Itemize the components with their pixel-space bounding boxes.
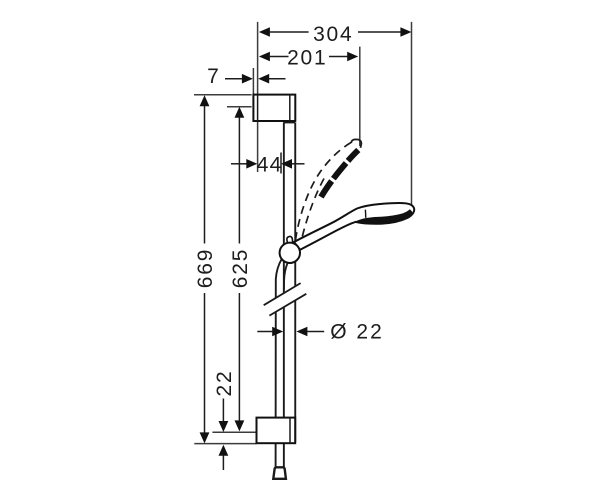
dimension 44 arrows — [246, 159, 292, 169]
dimension 22 arrows — [219, 421, 229, 456]
dimension 201 arrows — [259, 52, 358, 62]
dimension 44 line — [231, 153, 305, 174]
shower hose left edge — [276, 259, 282, 468]
extension line bracket centre bottom — [212, 431, 256, 433]
break line lower — [269, 294, 306, 316]
dimension 7 line — [225, 78, 286, 80]
dimension 304 line — [270, 31, 401, 33]
phantom hand shower head cap dashed — [351, 139, 361, 147]
shower hose right edge — [284, 263, 288, 290]
wall bar left edge — [283, 123, 285, 442]
hand shower body — [294, 203, 414, 250]
dimension 669 line — [204, 106, 206, 433]
wall bracket top — [253, 95, 295, 121]
dimension 304 arrows — [259, 27, 412, 37]
wall bracket top inner left line — [257, 95, 259, 121]
wall bar right edge — [294, 123, 296, 442]
hand shower spray face dark band — [356, 210, 412, 224]
svg-text:Ø 22: Ø 22 — [330, 321, 384, 344]
svg-text:201: 201 — [287, 46, 327, 69]
extension line right of 304 — [411, 22, 413, 207]
extension line bracket left face — [252, 68, 254, 95]
extension line top for 669 — [194, 94, 252, 96]
slider body circle — [280, 243, 300, 263]
dimension 201 line — [270, 56, 348, 58]
extension line wall reference — [257, 22, 259, 172]
dimension 669 arrows — [200, 95, 210, 443]
svg-text:669: 669 — [194, 248, 217, 288]
dimension 625 line — [238, 118, 240, 421]
dimension diameter 22 line — [257, 331, 324, 333]
slider release knob — [286, 236, 293, 245]
wall bracket top inner right line — [289, 95, 291, 121]
extension line bar end bottom — [194, 443, 256, 445]
dimension diameter 22 arrows — [272, 327, 307, 337]
svg-text:44: 44 — [257, 154, 283, 177]
break gap mask — [262, 283, 308, 318]
phantom hand shower left dashed edge — [295, 143, 351, 241]
wall bracket bottom — [257, 418, 296, 444]
svg-text:22: 22 — [213, 370, 236, 397]
wall bar top step — [283, 122, 295, 124]
svg-text:7: 7 — [207, 65, 219, 88]
wall bracket bottom inner right line — [289, 418, 291, 444]
shower hose below bracket — [283, 443, 285, 467]
dimension 7 arrows — [242, 74, 269, 84]
break line upper — [264, 283, 301, 305]
hand shower seam tick — [364, 210, 366, 218]
extension line top for 625 — [227, 106, 252, 108]
extension line right of 201 — [359, 47, 361, 146]
svg-text:625: 625 — [229, 248, 252, 288]
dimension 625 arrows — [235, 107, 245, 432]
dimension 22 line — [222, 399, 224, 471]
hose end cone — [273, 467, 286, 479]
phantom spray face dark band — [321, 150, 358, 197]
phantom hand shower right dashed edge — [301, 179, 324, 241]
svg-text:304: 304 — [313, 23, 353, 46]
